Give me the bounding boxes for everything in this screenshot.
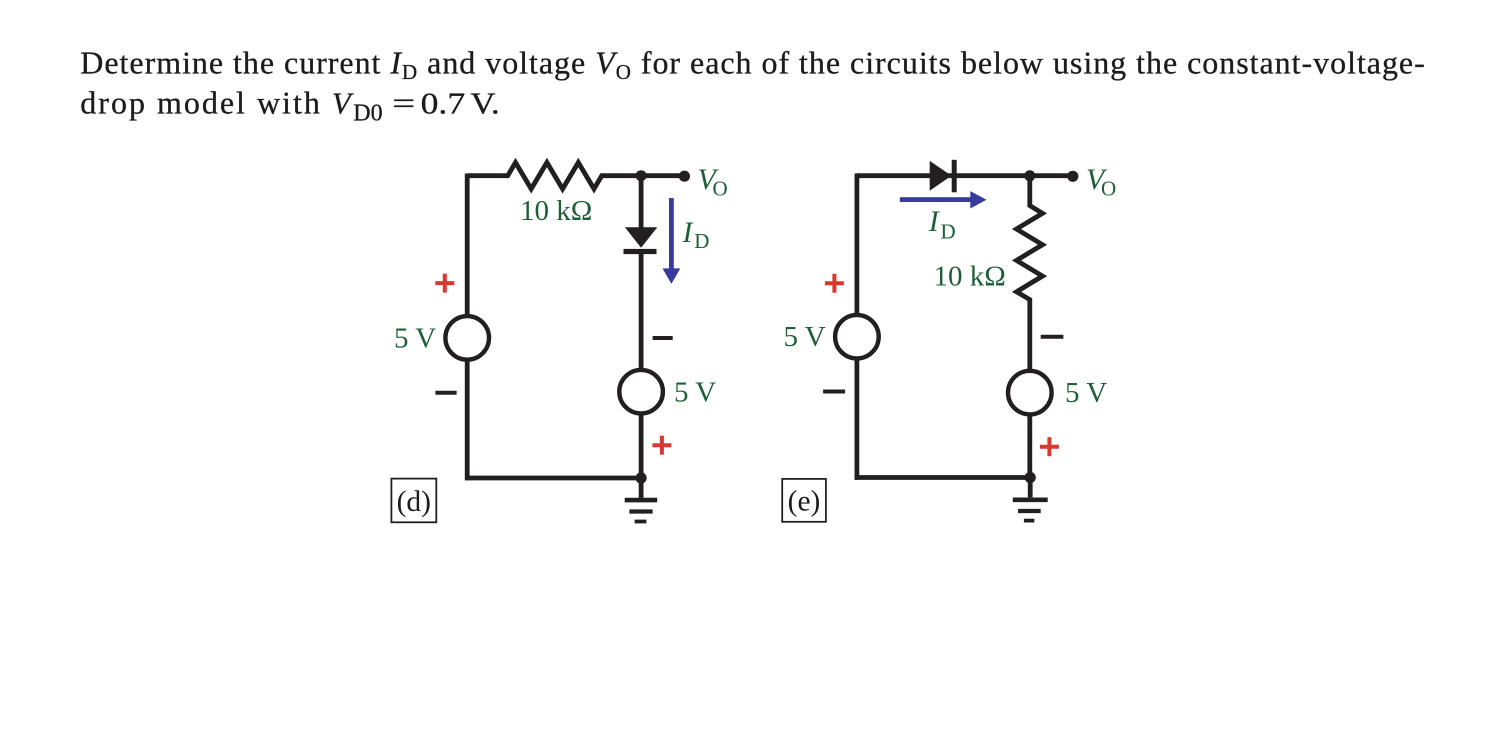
svg-text:O: O [713, 177, 728, 201]
svg-text:O: O [1101, 177, 1116, 201]
svg-text:10 kΩ: 10 kΩ [520, 195, 592, 227]
svg-text:5 V: 5 V [784, 321, 826, 353]
svg-text:5 V: 5 V [394, 322, 436, 354]
svg-text:V: V [332, 86, 354, 121]
svg-text:drop model with: drop model with [80, 85, 322, 121]
svg-text:5 V: 5 V [1065, 377, 1107, 409]
svg-text:0.7: 0.7 [421, 86, 466, 121]
svg-text:5 V: 5 V [674, 377, 716, 409]
svg-text:(e): (e) [788, 486, 821, 518]
svg-text:Determine the current ID and v: Determine the current ID and voltage VO … [80, 45, 1425, 85]
svg-text:(d): (d) [397, 486, 431, 518]
svg-text:D0: D0 [353, 100, 382, 126]
svg-text:D: D [941, 219, 956, 243]
svg-text:=: = [392, 86, 415, 121]
svg-text:V.: V. [470, 86, 499, 121]
svg-text:10 kΩ: 10 kΩ [934, 261, 1006, 293]
svg-text:D: D [694, 229, 709, 253]
